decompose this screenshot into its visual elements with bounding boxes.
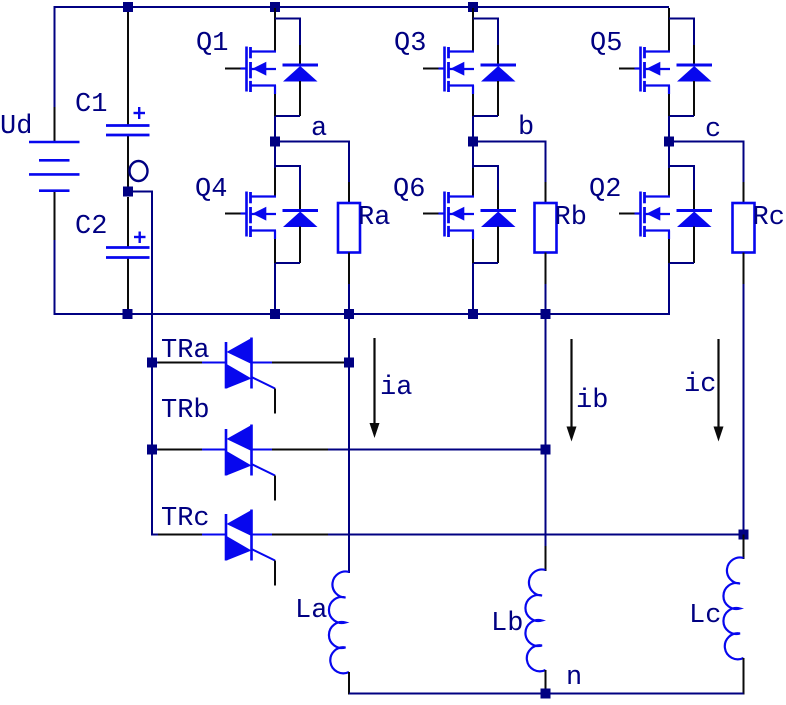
junction bottom rail / C2 xyxy=(123,309,133,319)
diode of Q1 cathode bar xyxy=(283,64,319,67)
wire node O to triac feeder xyxy=(133,191,153,193)
node n junction xyxy=(541,689,551,699)
wire diode branch top of Q5 xyxy=(669,18,694,20)
transistor Q6 MOSFET xyxy=(445,192,475,238)
svg-text:Ra: Ra xyxy=(358,203,390,233)
wire capacitor branch vertical xyxy=(127,7,129,125)
resistor Rc xyxy=(733,203,755,253)
resistor Rb xyxy=(535,203,557,253)
wire drain lead of Q5 xyxy=(668,8,670,52)
wire below Rb xyxy=(545,253,547,285)
junction bottom rail phase b xyxy=(468,309,478,319)
wire gate of TRa xyxy=(252,377,276,389)
resistor Ra xyxy=(338,203,360,253)
transistor Q1 MOSFET xyxy=(247,47,277,93)
svg-text:ic: ic xyxy=(684,370,716,400)
wire node c to resistor Rc xyxy=(669,141,745,143)
svg-text:Q1: Q1 xyxy=(196,29,228,59)
wire gate of TRc xyxy=(252,549,276,561)
diode of Q4 cathode bar xyxy=(283,209,319,212)
svg-text:Q5: Q5 xyxy=(590,29,622,59)
svg-text:Q3: Q3 xyxy=(394,29,426,59)
wire below Rc xyxy=(743,253,745,285)
svg-text:Ud: Ud xyxy=(0,112,32,142)
battery Ud plate long xyxy=(29,173,80,176)
wire diode branch top of Q6 xyxy=(473,165,498,167)
diode of Q3 triangle xyxy=(481,66,516,82)
wire TRb right lead xyxy=(252,449,273,451)
node b junction xyxy=(468,137,478,147)
polarity plus of C2 xyxy=(134,236,146,238)
diode of Q4 triangle xyxy=(283,212,318,228)
wire node a down to Ra xyxy=(348,142,350,183)
wire gate lead of Q4 xyxy=(225,213,243,215)
diode of Q1 triangle xyxy=(283,66,318,82)
diode of Q5 cathode bar xyxy=(677,64,713,67)
wire TRc right lead xyxy=(252,534,273,536)
svg-text:Q6: Q6 xyxy=(393,175,425,205)
wire drain lead of Q6 xyxy=(472,142,474,169)
wire source of Q5 to node c xyxy=(668,86,670,95)
wire node b down to Rb xyxy=(545,142,547,183)
svg-text:TRa: TRa xyxy=(161,336,210,366)
wire node b to resistor Rb xyxy=(473,141,547,143)
svg-text:C2: C2 xyxy=(75,212,107,242)
wire diode branch bottom of Q5 xyxy=(693,81,695,116)
diode of Q2 cathode bar xyxy=(677,209,713,212)
transistor Q3 MOSFET xyxy=(445,47,475,93)
node O marker circle xyxy=(130,161,148,181)
junction bottom rail / Ra column xyxy=(344,309,354,319)
junction triac feeder / TRa xyxy=(147,358,157,368)
wire bottom negative rail xyxy=(55,313,670,315)
wire gate lead of Q5 xyxy=(619,68,637,70)
svg-text:Lc: Lc xyxy=(689,601,721,631)
transistor Q2 MOSFET xyxy=(641,192,671,238)
svg-text:Lb: Lb xyxy=(491,609,523,639)
current arrow ib xyxy=(567,339,577,442)
diode of Q3 cathode bar xyxy=(481,64,517,67)
wire diode branch bottom of Q3 xyxy=(497,81,499,116)
wire La to neutral xyxy=(348,672,350,695)
svg-text:ib: ib xyxy=(576,386,608,416)
svg-text:La: La xyxy=(295,596,327,626)
inductor Lc xyxy=(723,558,743,660)
wire drain lead of Q3 xyxy=(472,8,474,52)
svg-text:Rc: Rc xyxy=(753,203,785,233)
diode of Q6 triangle xyxy=(481,212,516,228)
wire TRb left lead xyxy=(151,449,158,451)
wire phase b column to inductor Lb xyxy=(545,314,547,450)
wire gate lead of Q2 xyxy=(619,213,637,215)
wire top positive rail xyxy=(55,6,670,8)
wire phase c column to inductor Lc xyxy=(743,284,745,535)
wire drain lead of Q4 xyxy=(274,142,276,169)
wire diode branch top of Q2 xyxy=(669,165,694,167)
wire drain lead of Q1 xyxy=(274,8,276,52)
diode of Q5 triangle xyxy=(677,66,712,82)
junction top rail / C1 xyxy=(123,2,133,12)
wire diode branch bottom of Q6 xyxy=(497,227,499,264)
wire triac feeder vertical xyxy=(151,192,153,536)
wire diode branch bottom of Q2 xyxy=(693,227,695,264)
junction top rail phase a xyxy=(270,2,280,12)
svg-text:C1: C1 xyxy=(75,90,107,120)
wire TRa left lead xyxy=(151,362,158,364)
triac TRc xyxy=(226,510,252,561)
wire gate of TRb xyxy=(252,464,276,476)
wire left DC link vertical xyxy=(54,6,56,107)
wire TRa right lead xyxy=(252,362,273,364)
transistor Q5 MOSFET xyxy=(641,47,671,93)
polarity plus of C1 xyxy=(134,112,146,114)
wire TRc left lead xyxy=(151,534,158,536)
junction TRb to phase column xyxy=(541,445,551,455)
inductor Lb xyxy=(525,570,545,672)
wire source of Q3 to node b xyxy=(472,86,474,95)
wire neutral bottom xyxy=(349,693,744,695)
wire source of Q1 to node a xyxy=(274,86,276,95)
wire phase a column to inductor La xyxy=(348,314,350,573)
wire diode branch top of Q1 xyxy=(275,18,300,20)
wire node c down to Rc xyxy=(743,142,745,183)
wire diode branch top of Q4 xyxy=(275,165,300,167)
junction TRa to phase column xyxy=(344,358,354,368)
wire below Ra xyxy=(348,253,350,285)
node c junction xyxy=(664,137,674,147)
junction node O xyxy=(123,187,133,197)
battery Ud plate short bottom xyxy=(39,189,70,192)
wire diode branch bottom of Q1 xyxy=(299,81,301,116)
wire diode branch bottom of Q4 xyxy=(299,227,301,264)
inductor La xyxy=(329,572,349,674)
node a junction xyxy=(270,137,280,147)
wire gate lead of Q1 xyxy=(225,68,243,70)
svg-text:a: a xyxy=(311,114,327,144)
capacitor C2 xyxy=(106,246,150,249)
current arrow ia xyxy=(370,338,380,438)
wire Lc to neutral xyxy=(743,658,745,695)
svg-text:Q2: Q2 xyxy=(589,175,621,205)
wire source of Q2 to bottom rail xyxy=(668,231,670,240)
wire drain lead of Q2 xyxy=(668,142,670,169)
battery Ud plate short xyxy=(39,159,70,162)
svg-text:TRb: TRb xyxy=(161,396,210,426)
wire gate lead of Q3 xyxy=(423,68,441,70)
svg-text:ia: ia xyxy=(380,373,412,403)
svg-text:Q4: Q4 xyxy=(195,175,227,205)
diode of Q2 triangle xyxy=(677,212,712,228)
junction TRc to phase column xyxy=(739,530,749,540)
battery Ud plate long top xyxy=(29,141,80,144)
wire source of Q6 to bottom rail xyxy=(472,231,474,240)
wire node a to resistor Ra xyxy=(275,141,350,143)
wire Lb to neutral xyxy=(545,670,547,695)
svg-text:b: b xyxy=(518,113,534,143)
wire gate lead of Q6 xyxy=(423,213,441,215)
svg-text:TRc: TRc xyxy=(161,504,210,534)
transistor Q4 MOSFET xyxy=(247,192,277,238)
junction bottom rail / Rb column xyxy=(541,309,551,319)
svg-text:Rb: Rb xyxy=(555,203,587,233)
junction bottom rail phase a xyxy=(270,309,280,319)
wire source of Q4 to bottom rail xyxy=(274,231,276,240)
capacitor C1 xyxy=(106,124,150,127)
wire diode branch top of Q3 xyxy=(473,18,498,20)
triac TRb xyxy=(226,425,252,476)
triac TRa xyxy=(226,338,252,389)
current arrow ic xyxy=(714,339,724,442)
svg-text:n: n xyxy=(566,663,582,693)
junction top rail phase b xyxy=(468,2,478,12)
diode of Q6 cathode bar xyxy=(481,209,517,212)
junction triac feeder / TRb xyxy=(147,445,157,455)
